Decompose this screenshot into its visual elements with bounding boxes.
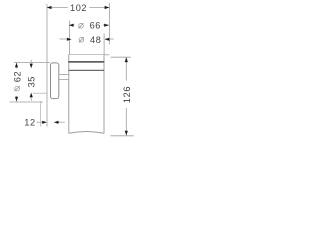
dimension dia62 bottom arrow [15, 97, 18, 102]
dimension 102 line [47, 7, 109, 9]
dimension 35 bottom arrow [30, 93, 33, 98]
dimension 35 lower tail [30, 96, 32, 100]
dimension 102 left arrow [47, 6, 52, 9]
dimension dia62 top arrow [15, 63, 18, 68]
glass top edge extension [104, 54, 109, 56]
right extension line x=109.4 [108, 3, 110, 45]
dia62 top extension line [14, 62, 50, 64]
dimension 12 right arrow [54, 121, 59, 124]
tumbler glass left edge [68, 54, 70, 133]
dimension dia48 right tail [105, 38, 114, 40]
dimension dia66 text mask [75, 20, 103, 30]
dimension 12 vertical extension [40, 101, 42, 127]
glass right extension line [103, 34, 105, 55]
dimension 126 top arrow [125, 57, 128, 62]
126 bottom extension line [111, 135, 134, 137]
dimension 126 line [125, 58, 127, 136]
126 top extension line [111, 56, 131, 58]
dimension dia66 line [70, 24, 110, 26]
svg-text:62: 62 [12, 71, 22, 82]
dimension dia48 diameter symbol [79, 37, 84, 42]
dimension 35 top arrow [30, 64, 33, 69]
glass left extension line [69, 21, 71, 55]
svg-text:102: 102 [70, 3, 87, 13]
svg-text:35: 35 [27, 76, 37, 87]
dimension 35 bottom extension line [33, 92, 47, 94]
svg-text:126: 126 [122, 86, 132, 103]
dimension 126 bottom arrow [125, 131, 128, 136]
tumbler glass top rim [69, 54, 105, 56]
dimension dia66 right arrow [104, 24, 109, 27]
dimension dia62 line [16, 63, 18, 102]
dimension 12 right tail [58, 121, 65, 123]
tumbler glass right edge [103, 54, 105, 133]
svg-text:66: 66 [90, 20, 101, 30]
svg-text:12: 12 [24, 117, 35, 127]
dimension dia66 diameter symbol [79, 23, 84, 28]
holder ring top edge [68, 61, 104, 63]
dimension 126 text mask [121, 81, 132, 109]
dimension dia62 text mask [11, 69, 22, 97]
dimension dia66 left arrow [69, 24, 74, 27]
support arm bottom line [59, 79, 69, 81]
dimension dia62 diameter symbol [14, 86, 19, 91]
dimension 102 text mask [68, 3, 90, 12]
holder ring bottom edge [68, 69, 104, 71]
dimension 35 upper tail [30, 60, 32, 64]
support arm top line [59, 74, 69, 76]
tumbler glass bottom [69, 132, 104, 134]
dimension 102 right arrow [105, 6, 110, 9]
wall plate body [51, 63, 59, 99]
dimension 12 left tail [37, 121, 44, 123]
dimension 12 left arrow [42, 121, 47, 124]
dimension dia48 right arrow [105, 38, 110, 41]
dimension dia48 left tail [60, 38, 68, 40]
svg-text:48: 48 [90, 35, 101, 45]
dia62 bottom extension line [10, 101, 44, 103]
dimension dia48 left arrow [67, 38, 72, 41]
wall extension line [46, 4, 48, 127]
